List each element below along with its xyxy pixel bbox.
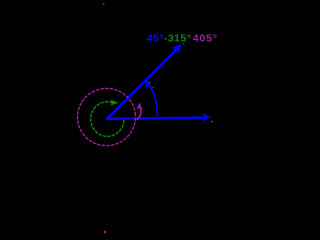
wire: blue terminal side (45-degree ray): [107, 50, 177, 120]
svg-text:405°: 405°: [193, 33, 218, 45]
svg-text:45°: 45°: [147, 33, 164, 45]
stray magenta dot right of horizontal arrow: [211, 121, 213, 123]
stray green pixel near diagonal arrow tip: [183, 43, 184, 44]
magenta spiral tail going outward: [137, 107, 141, 120]
arrowhead of horizontal ray: [203, 113, 211, 121]
wire: blue initial side (horizontal ray): [107, 118, 205, 119]
arrowhead of magenta tail (pointing up): [137, 102, 143, 109]
blue 45-degree angle arc: [146, 82, 157, 117]
svg-text:-315°: -315°: [164, 33, 191, 45]
magenta 405 degree loop (full wobbly circle): [74, 85, 139, 150]
stray green pixel near arc arrowhead: [149, 82, 150, 83]
arrowhead of 45-degree ray: [172, 44, 182, 54]
stray magenta dot bottom center: [104, 231, 106, 233]
stray green pixel top: [103, 3, 104, 4]
green -315 degree circle (clockwise from initial side): [91, 102, 124, 137]
arrowhead of 45-degree angle arc: [145, 80, 152, 89]
arrowhead of green circle (pointing clockwise, right-down): [111, 100, 119, 106]
stray green pixel on diagonal ray: [153, 87, 154, 88]
